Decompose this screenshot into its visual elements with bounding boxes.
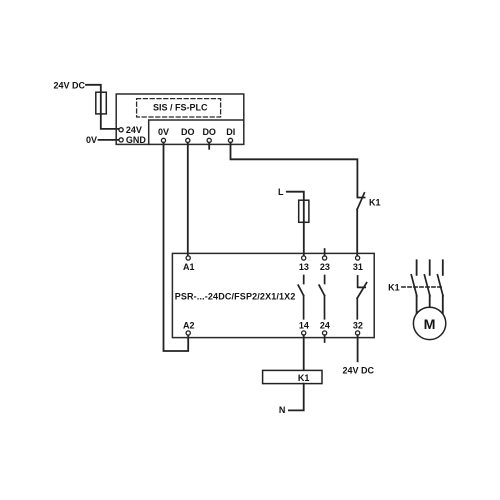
wire 0V terminal to A2 — [164, 143, 189, 351]
contact 23-24 NO — [324, 276, 326, 284]
svg-text:24V DC: 24V DC — [53, 80, 85, 90]
contact 13-14 NO — [303, 276, 305, 284]
relay coil K1 — [263, 370, 322, 383]
wire 0V to GND terminal — [99, 139, 119, 141]
svg-text:32: 32 — [353, 320, 363, 330]
svg-text:M: M — [424, 317, 436, 333]
fuse F1 — [96, 92, 107, 114]
fuse F2 — [299, 200, 309, 222]
relay box PSR — [172, 253, 374, 337]
svg-text:A2: A2 — [183, 320, 195, 330]
svg-text:14: 14 — [299, 320, 309, 330]
contact K1 NC feedback — [357, 197, 364, 199]
svg-text:24V: 24V — [126, 125, 142, 135]
motor M — [413, 307, 445, 339]
wire DI to K1 feedback contact — [231, 143, 358, 198]
svg-text:DO: DO — [181, 127, 195, 137]
svg-text:0V: 0V — [158, 127, 169, 137]
svg-text:13: 13 — [299, 262, 309, 272]
svg-text:23: 23 — [320, 262, 330, 272]
wire stub DO2 — [208, 143, 210, 149]
svg-text:K1: K1 — [369, 198, 381, 208]
contactor pole L3 — [442, 260, 444, 275]
terminal 13 — [302, 256, 306, 260]
svg-text:DI: DI — [226, 127, 235, 137]
svg-text:N: N — [279, 405, 286, 415]
svg-text:GND: GND — [126, 135, 146, 145]
dashed box SIS / FS-PLC — [137, 99, 221, 117]
svg-text:24: 24 — [320, 320, 330, 330]
wire 24VDC to fuse F1 to 24V terminal — [86, 85, 119, 129]
svg-text:DO: DO — [202, 127, 216, 137]
wire L to fuse F2 to terminal 13 — [287, 192, 304, 256]
terminal 32 — [356, 331, 360, 335]
svg-text:SIS / FS-PLC: SIS / FS-PLC — [153, 102, 208, 112]
contactor K1 dashed link — [402, 286, 443, 288]
svg-text:PSR-...-24DC/FSP2/2X1/1X2: PSR-...-24DC/FSP2/2X1/1X2 — [175, 292, 296, 302]
wire stub 24 — [324, 335, 326, 342]
PLC terminal strip divider — [149, 120, 244, 144]
svg-text:K1: K1 — [298, 373, 310, 383]
terminal 23 — [323, 256, 327, 260]
svg-text:A1: A1 — [183, 262, 195, 272]
svg-text:31: 31 — [353, 262, 363, 272]
wire coil K1 to N — [289, 384, 304, 411]
terminal A2 — [186, 331, 190, 335]
wire 14 to coil K1 — [303, 335, 305, 370]
contactor pole L2 — [429, 260, 431, 275]
wire stub 23 — [324, 249, 326, 256]
terminal 24V of PLC — [119, 128, 123, 132]
contact 31-32 NC — [358, 276, 366, 287]
wire DO to A1 — [187, 143, 189, 256]
svg-text:24V DC: 24V DC — [343, 365, 375, 375]
svg-text:L: L — [278, 187, 284, 197]
terminal 14 — [302, 331, 306, 335]
terminal 24 — [323, 331, 327, 335]
svg-text:0V: 0V — [86, 135, 97, 145]
PLC box SIS / FS-PLC — [116, 94, 244, 144]
terminal 31 — [356, 256, 360, 260]
svg-text:K1: K1 — [388, 283, 400, 293]
wire 32 to 24V DC — [357, 335, 359, 361]
terminal GND of PLC — [119, 138, 123, 142]
terminal A1 — [186, 256, 190, 260]
contactor pole L1 — [416, 260, 418, 275]
